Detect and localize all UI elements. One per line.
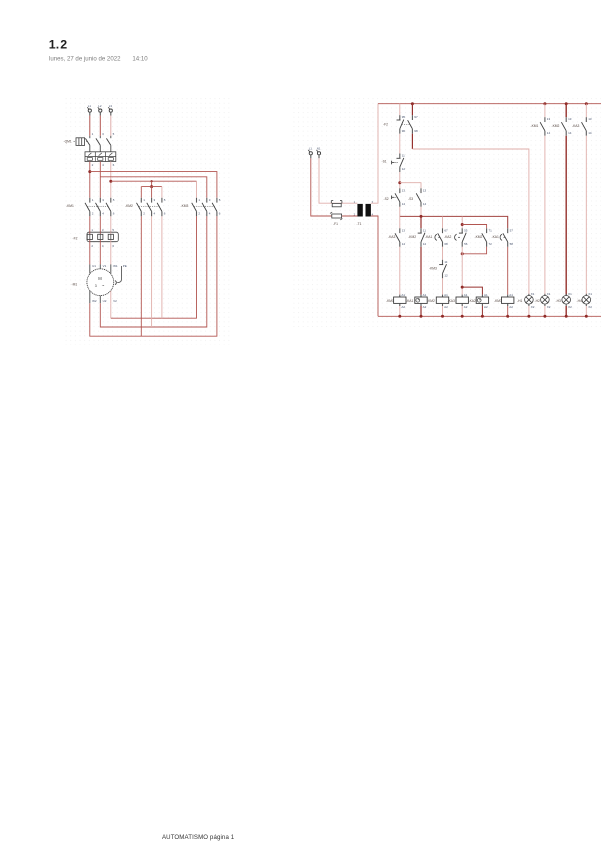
wire L2 to breaker [99, 116, 101, 136]
svg-text:56: 56 [464, 242, 468, 246]
wire S2 to rung [399, 207, 401, 217]
wire phase1 tap to KM3 pole5 [90, 172, 217, 198]
svg-text:14:10: 14:10 [132, 56, 148, 63]
wire coil KM2 to bus [442, 306, 444, 316]
node rung KA1 [420, 215, 423, 218]
svg-text:-KM2: -KM2 [552, 124, 560, 128]
svg-text:13: 13 [402, 188, 406, 192]
svg-text:AUTOMATISMO página 1: AUTOMATISMO página 1 [162, 834, 235, 841]
svg-text:13: 13 [402, 228, 406, 232]
wire KA3 contact to coil KM1 [399, 247, 401, 295]
wire S1 to node [399, 172, 401, 188]
svg-text:~: ~ [102, 283, 105, 288]
svg-text:W1: W1 [113, 264, 118, 268]
svg-text:14: 14 [588, 131, 592, 135]
wire KA1 57-58 to coil KM3 [507, 247, 509, 295]
svg-text:-F2: -F2 [73, 237, 78, 241]
svg-text:-F2: -F2 [383, 123, 388, 127]
svg-text:-S1: -S1 [382, 160, 387, 164]
wire relay to motor V1 [99, 242, 101, 265]
svg-text:-S3: -S3 [408, 197, 413, 201]
node bracket1 [461, 223, 464, 226]
wire KM2 pole3 down [151, 216, 153, 327]
svg-text:-S2: -S2 [384, 197, 389, 201]
wire lamp H2 to bus [544, 306, 546, 316]
svg-text:X2: X2 [568, 305, 572, 309]
svg-text:-KM3: -KM3 [494, 299, 502, 303]
svg-text:58: 58 [510, 242, 514, 246]
svg-text:14: 14 [402, 242, 406, 246]
svg-text:N1: N1 [317, 147, 321, 151]
svg-text:2: 2 [60, 38, 67, 52]
node KA2 coil branch [461, 286, 464, 289]
wire breaker to KM1 pole2 [99, 162, 101, 198]
wire KM1 contact to lamp H2 [544, 136, 546, 296]
wire U2 to KM3 pole3 [100, 216, 207, 327]
wire KM2 contact to lamp H3 [565, 136, 567, 296]
wire L to fuse [311, 158, 332, 216]
wire phase3 tap to KM3 pole1 [111, 180, 197, 182]
svg-text:72: 72 [489, 242, 493, 246]
svg-text:97: 97 [414, 115, 418, 119]
wire KM1 pole1 to relay [89, 216, 91, 232]
svg-text:X2: X2 [531, 305, 535, 309]
wire N to fuse2 [319, 158, 331, 203]
svg-text:-H4: -H4 [577, 299, 582, 303]
bottom bus junction nodes [398, 315, 401, 318]
svg-text:-KM1: -KM1 [386, 299, 394, 303]
bottom bus wire [378, 315, 601, 317]
wire rung to KA1 timer contact [442, 216, 444, 228]
motor bottom stubs [89, 291, 91, 303]
svg-text:A1: A1 [423, 293, 427, 297]
svg-text:11: 11 [444, 260, 447, 264]
svg-text:-KA3: -KA3 [572, 124, 579, 128]
svg-text:-KM2: -KM2 [125, 204, 133, 208]
wire branch to S3 [400, 183, 421, 189]
svg-text:-KM2: -KM2 [427, 299, 435, 303]
svg-text:-KM3: -KM3 [181, 204, 189, 208]
fuse F1 [331, 215, 357, 217]
wire KM2 NC to coil KA1 [420, 247, 422, 295]
svg-text:13: 13 [547, 117, 551, 121]
wire F2 98 to lamp H1 [411, 134, 413, 149]
wire W2 to KM3 pole5 [90, 216, 217, 336]
svg-text:-KA1: -KA1 [406, 299, 413, 303]
wire to coil KA3 [461, 247, 463, 295]
terminal L1 [88, 109, 91, 112]
svg-text:A1: A1 [484, 293, 488, 297]
wire rung to KA3 contact [399, 216, 401, 228]
svg-text:A2: A2 [464, 305, 468, 309]
node start branch [398, 181, 401, 184]
svg-text:12: 12 [444, 273, 448, 277]
fuse F3 [331, 202, 357, 204]
svg-text:L1: L1 [88, 104, 92, 108]
wire coil KM3 to bus [507, 306, 509, 316]
svg-text:-KM2: -KM2 [408, 235, 416, 239]
svg-text:13: 13 [588, 117, 592, 121]
grid dots right drawing [293, 96, 601, 327]
node tap phase3 [109, 180, 112, 183]
wire rung to KA2 timer contact [461, 216, 463, 228]
svg-text:-KA3: -KA3 [448, 299, 455, 303]
svg-text:98: 98 [414, 129, 418, 133]
node KM2 bracket [150, 185, 153, 188]
svg-text:W2: W2 [92, 299, 97, 303]
node lamp2 top bus tap [565, 102, 568, 105]
svg-text:X1: X1 [568, 292, 572, 296]
wire secondary bottom to bottom bus [371, 216, 378, 316]
svg-text:PE: PE [123, 264, 127, 268]
wire relay to motor W1 [110, 242, 112, 265]
svg-text:14: 14 [547, 131, 551, 135]
wire L3 to breaker [110, 116, 112, 136]
svg-text:L3: L3 [109, 104, 113, 108]
wire coil KA1 to bus [420, 306, 422, 316]
wire KA3 contact to lamp H4 [585, 136, 587, 296]
wire lamp H1 to bus [528, 306, 530, 316]
svg-text:X2: X2 [588, 305, 592, 309]
svg-text:A2: A2 [484, 305, 488, 309]
wire KA1 contact to KM3 NC [442, 247, 444, 260]
node KM2 feed tap [151, 180, 153, 182]
svg-text:lunes, 27 de junio de 2022: lunes, 27 de junio de 2022 [49, 56, 121, 63]
svg-text:L1: L1 [309, 147, 313, 151]
node tap phase1 [88, 170, 91, 173]
svg-text:55: 55 [464, 228, 468, 232]
svg-text:-KA2: -KA2 [444, 235, 451, 239]
svg-text:A2: A2 [444, 305, 448, 309]
wire L1 to breaker [89, 116, 91, 136]
wire breaker to KM1 pole3 [110, 162, 112, 198]
top bus wire [378, 103, 601, 105]
svg-text:14: 14 [423, 202, 427, 206]
svg-text:V1: V1 [103, 264, 107, 268]
svg-text:-H3: -H3 [556, 299, 561, 303]
svg-text:A2: A2 [509, 305, 513, 309]
wire breaker to KM1 pole1 [89, 162, 91, 198]
svg-text:1.: 1. [49, 38, 59, 52]
wire lamp H3 to bus [565, 306, 567, 316]
svg-text:-KM1: -KM1 [531, 124, 539, 128]
wire bracket to KM2 pole3 [151, 187, 153, 198]
wire KM1 pole3 to relay [110, 216, 112, 232]
wire S3 to rung [420, 207, 422, 217]
svg-text:-H2: -H2 [535, 299, 540, 303]
svg-text:12: 12 [402, 167, 406, 171]
wire KM2 pole1 down [140, 216, 142, 336]
svg-text:13: 13 [568, 117, 572, 121]
wire KM2 pole5 down [161, 216, 163, 318]
svg-text:14: 14 [568, 131, 572, 135]
node lamp3 top bus tap [585, 102, 588, 105]
wire bracket1 [462, 225, 486, 229]
terminal L3 [109, 109, 112, 112]
control terminal N [317, 152, 320, 155]
svg-text:-M1: -M1 [72, 283, 78, 287]
breaker thermal overload block [85, 152, 116, 162]
svg-text:L2: L2 [98, 104, 102, 108]
svg-text:-KM2: -KM2 [475, 235, 483, 239]
wire branch to coil KA2 [462, 287, 482, 295]
svg-text:V2: V2 [113, 299, 117, 303]
svg-text:3: 3 [95, 284, 97, 288]
svg-text:13: 13 [423, 188, 427, 192]
svg-text:14: 14 [402, 202, 406, 206]
node F2 branch [411, 102, 414, 105]
svg-text:11: 11 [423, 228, 426, 232]
node lamp1 top bus tap [543, 102, 546, 105]
wire coil KA3 to bus [461, 306, 463, 316]
wire bracket to KM2 pole1 [140, 187, 142, 198]
relay contact F2 97-98 [411, 104, 413, 116]
svg-text:A1: A1 [401, 293, 405, 297]
transformer T1 [357, 204, 362, 217]
svg-text:-T1: -T1 [357, 222, 362, 226]
svg-text:M: M [98, 276, 102, 281]
wire coil KM1 to bus [399, 306, 401, 316]
svg-text:-H1: -H1 [517, 299, 522, 303]
svg-text:X1: X1 [531, 292, 535, 296]
svg-text:U1: U1 [92, 264, 96, 268]
wire KM2 feed [151, 181, 153, 186]
svg-text:57: 57 [510, 228, 514, 232]
svg-text:-KM3: -KM3 [429, 267, 437, 271]
svg-text:-KA1: -KA1 [492, 235, 499, 239]
grid dots left drawing [63, 95, 231, 345]
wire lamp H4 to bus [585, 306, 587, 316]
wire bracket to KM2 pole5 [161, 187, 163, 198]
wire KM2 bracket [141, 186, 162, 188]
svg-text:A1: A1 [509, 293, 513, 297]
svg-text:12: 12 [423, 242, 427, 246]
svg-text:11: 11 [402, 154, 405, 158]
terminal L2 [99, 109, 102, 112]
svg-text:67: 67 [444, 228, 448, 232]
svg-text:A2: A2 [401, 305, 405, 309]
wire bracket2 [462, 247, 486, 254]
svg-text:-KM1: -KM1 [66, 204, 74, 208]
wire relay to motor U1 [89, 242, 91, 265]
control terminal L [309, 152, 312, 155]
svg-text:A1: A1 [464, 293, 468, 297]
svg-text:X1: X1 [547, 292, 551, 296]
svg-text:-KA3: -KA3 [388, 235, 395, 239]
svg-text:96: 96 [402, 129, 406, 133]
wire rung to KM2 NC contact [420, 216, 422, 228]
svg-text:-QM1: -QM1 [64, 140, 72, 144]
svg-text:95: 95 [402, 115, 406, 119]
wire KM1 pole2 to relay [99, 216, 101, 232]
svg-text:71: 71 [489, 228, 493, 232]
svg-text:X2: X2 [547, 305, 551, 309]
wire F2 to stop button [399, 134, 401, 154]
svg-text:A1: A1 [444, 293, 448, 297]
svg-text:X1: X1 [588, 292, 592, 296]
wire secondary top to left rail [371, 104, 378, 204]
node bracket2 [461, 252, 464, 255]
svg-text:A2: A2 [423, 305, 427, 309]
wire KM3 NC to coil KM2 [442, 278, 444, 294]
svg-text:68: 68 [444, 242, 448, 246]
wire coil KA2 to bus [481, 306, 483, 316]
svg-text:-F1: -F1 [333, 222, 338, 226]
svg-text:-KA2: -KA2 [469, 299, 476, 303]
rung bus [400, 216, 508, 228]
wire phase2 tap to KM3 pole3 [100, 177, 207, 198]
wire V2 to KM3 pole1 [110, 303, 112, 318]
svg-text:-KA1: -KA1 [425, 235, 432, 239]
svg-text:U2: U2 [103, 299, 107, 303]
